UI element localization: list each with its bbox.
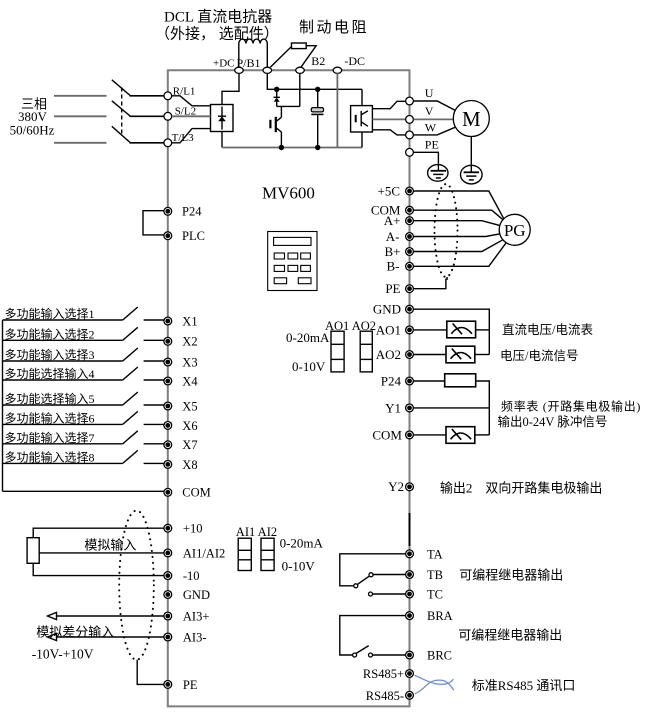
wire Y2 bus segment: [409, 513, 411, 546]
terminal TB: [406, 571, 414, 579]
switch blade X8: [123, 450, 138, 463]
wire AI3-: [57, 636, 165, 638]
wire X6 row: [3, 423, 123, 425]
terminal BRA: [406, 612, 414, 620]
terminal P24 left: [164, 207, 172, 215]
wire B2 drop: [299, 73, 301, 106]
svg-text:多功能输入选择6: 多功能输入选择6: [5, 410, 95, 425]
ground PE symbol: [428, 163, 448, 181]
wire X2 stub: [144, 339, 164, 341]
svg-text:输出0-24V 脉冲信号: 输出0-24V 脉冲信号: [498, 414, 608, 429]
wire S/L2 to rectifier: [172, 115, 211, 117]
motor M: [453, 101, 489, 137]
svg-text:多功能选择输入4: 多功能选择输入4: [5, 366, 95, 381]
jumper block AO2: [360, 331, 372, 372]
svg-text:PE: PE: [183, 678, 198, 692]
wire inverter U: [372, 101, 405, 108]
svg-text:X5: X5: [182, 399, 197, 413]
wire COM to meter: [414, 434, 446, 436]
switch blade X6: [123, 411, 138, 424]
frame bottom border: [167, 705, 411, 707]
wire +5C to PG: [414, 191, 504, 219]
wire X3 row: [3, 360, 123, 362]
terminal TC: [406, 590, 414, 598]
wire X7 stub: [144, 443, 164, 445]
switch blade X2: [123, 327, 138, 340]
relay blade 2: [356, 646, 369, 654]
terminal BRC: [406, 651, 414, 659]
svg-text:多功能选择输入5: 多功能选择输入5: [5, 391, 95, 406]
wire B- to PG: [414, 243, 507, 267]
meter AO1: [447, 321, 476, 338]
wire COM to PG: [414, 210, 503, 220]
wire positive rail: [267, 73, 362, 89]
svg-text:X3: X3: [182, 355, 197, 369]
svg-text:直流电压/电流表: 直流电压/电流表: [502, 323, 593, 337]
wire T/L3 to rectifier: [172, 129, 211, 143]
wire negative rail: [222, 147, 362, 149]
terminal PE left: [164, 681, 172, 689]
node negative rail cap: [315, 145, 320, 150]
terminal AI1/AI2: [164, 549, 172, 557]
jumper block AI1: [238, 538, 251, 570]
shield ellipse PG cable: [435, 184, 458, 277]
svg-text:AI3-: AI3-: [183, 630, 207, 644]
svg-text:PE: PE: [385, 281, 400, 296]
terminal W: [406, 131, 414, 139]
svg-text:AI1 AI2: AI1 AI2: [236, 525, 277, 539]
terminal Y1: [406, 404, 414, 412]
wire AI1 wiper: [39, 552, 164, 554]
wire A- to PG: [414, 234, 500, 237]
rectifier bridge: [211, 105, 234, 132]
wire rectifier minus down: [221, 132, 223, 148]
svg-text:P24: P24: [381, 373, 402, 388]
svg-text:-DC: -DC: [344, 54, 365, 68]
svg-text:B+: B+: [384, 244, 400, 259]
svg-text:50/60Hz: 50/60Hz: [10, 123, 55, 138]
relay contact TC: [369, 592, 373, 596]
terminal R/L1: [164, 92, 172, 100]
terminal B-: [406, 262, 414, 270]
terminal GND right: [406, 305, 414, 313]
node negative rail brake: [279, 145, 284, 150]
wire X8 stub: [144, 462, 164, 464]
wire phase T input: [54, 142, 107, 144]
svg-text:B-: B-: [387, 259, 400, 274]
wire PE to PG shield: [414, 277, 447, 289]
terminal +5C: [406, 187, 414, 195]
svg-text:COM: COM: [182, 486, 210, 500]
svg-text:0-10V: 0-10V: [292, 359, 326, 374]
wire GND to meter bus: [414, 309, 490, 354]
svg-text:PG: PG: [504, 221, 526, 240]
svg-text:制动电阻: 制动电阻: [299, 19, 369, 36]
svg-text:输出2 双向开路集电极输出: 输出2 双向开路集电极输出: [440, 481, 603, 496]
wire AO1 meter to bus: [476, 329, 490, 331]
encoder PG: [499, 214, 530, 245]
wire P24-PLC jumper: [143, 211, 164, 235]
svg-text:AO2: AO2: [376, 347, 401, 362]
wire X1 row: [3, 319, 123, 321]
svg-text:RS485+: RS485+: [363, 667, 404, 681]
wire motor to ground: [470, 137, 472, 165]
ground motor symbol: [461, 164, 483, 184]
meter COM frequency: [446, 427, 475, 444]
switch blade X1: [123, 307, 138, 320]
wire TB: [373, 574, 405, 576]
terminal X1: [164, 317, 172, 325]
transistor inverter module: [351, 106, 373, 132]
jumper block AO1: [331, 331, 344, 372]
frame right bus: [409, 69, 411, 706]
wire P24 to resistor: [414, 380, 445, 382]
wire BRA to relay pivot: [340, 616, 406, 655]
wire X1 stub: [144, 319, 164, 321]
terminal +10: [164, 524, 172, 532]
multifunction input ladder left rail: [2, 320, 4, 491]
terminal X5: [164, 402, 172, 410]
terminal A-: [406, 233, 414, 241]
wire Y1 to bus: [414, 407, 490, 409]
svg-text:模拟差分输入: 模拟差分输入: [36, 625, 114, 640]
svg-text:-10: -10: [183, 569, 200, 583]
meter AO2: [446, 346, 475, 363]
svg-text:+DC: +DC: [213, 58, 234, 70]
wire -10 to pot: [33, 563, 164, 575]
wire COM meter to bus: [475, 434, 490, 436]
terminal COM right: [406, 431, 414, 439]
inductor DCL: [239, 39, 268, 67]
svg-text:DCL 直流电抗器: DCL 直流电抗器: [164, 9, 272, 26]
terminal +DC: [235, 67, 244, 73]
wire COM row: [3, 490, 165, 492]
terminal X2: [164, 337, 172, 345]
svg-text:P24: P24: [182, 205, 202, 219]
keypad operator panel: [268, 232, 317, 291]
svg-text:A-: A-: [386, 229, 400, 244]
wire X6 stub: [144, 423, 164, 425]
svg-text:B2: B2: [311, 54, 325, 68]
terminal TA: [406, 550, 414, 558]
terminal A+: [406, 217, 414, 225]
switch blade X3: [123, 348, 138, 361]
wire inverter V: [372, 118, 405, 120]
shield ellipse analog cable: [119, 511, 154, 660]
svg-text:PLC: PLC: [182, 229, 205, 243]
wire S blade to terminal: [130, 115, 165, 117]
svg-text:X1: X1: [182, 314, 197, 328]
terminal B2: [296, 67, 305, 73]
wire A+ to PG: [414, 221, 500, 226]
wire AO2 meter to bus: [475, 354, 490, 356]
diode brake freewheel: [274, 89, 280, 106]
wire resistor to bus: [476, 381, 490, 435]
svg-text:U: U: [425, 86, 434, 100]
wire V to motor: [414, 118, 454, 120]
svg-text:GND: GND: [183, 588, 210, 602]
svg-text:GND: GND: [373, 302, 401, 317]
terminal B+: [406, 248, 414, 256]
switch blade phase S: [112, 101, 130, 116]
svg-text:PE: PE: [425, 138, 439, 152]
terminal COM left: [164, 488, 172, 496]
wire X2 row: [3, 339, 123, 341]
svg-text:TC: TC: [427, 588, 443, 602]
wire PE to ground: [414, 152, 439, 163]
wire -DC drop: [336, 73, 338, 147]
svg-text:V: V: [425, 104, 434, 118]
svg-text:+10: +10: [183, 522, 203, 536]
svg-text:X6: X6: [182, 419, 197, 433]
svg-text:AO1: AO1: [376, 322, 401, 337]
svg-text:多功能输入选择1: 多功能输入选择1: [5, 306, 95, 321]
wire brake node to B2: [277, 105, 300, 107]
switch blade phase R: [112, 80, 130, 96]
wire W to motor: [414, 127, 455, 135]
node positive rail brake: [274, 87, 279, 92]
svg-text:多功能输入选择7: 多功能输入选择7: [5, 430, 95, 445]
wire X3 stub: [144, 360, 164, 362]
wire AO1 to meter: [414, 329, 447, 331]
svg-text:X7: X7: [182, 438, 197, 452]
arrow AI3+: [48, 612, 57, 619]
arrow AI3-: [48, 633, 57, 640]
wire T blade to terminal: [130, 142, 165, 144]
svg-text:A+: A+: [384, 213, 401, 228]
frame left bus: [167, 69, 169, 706]
wire R blade to terminal: [130, 95, 165, 97]
terminal Y2: [406, 483, 414, 491]
terminal RS485-: [406, 691, 414, 699]
resistor brake: [270, 43, 316, 67]
svg-text:可编程继电器输出: 可编程继电器输出: [459, 567, 563, 582]
wire X4 stub: [144, 379, 164, 381]
potentiometer analog: [27, 538, 39, 564]
svg-text:AI1/AI2: AI1/AI2: [183, 546, 225, 560]
wire X8 row: [3, 462, 123, 464]
relay pivot contact 2: [353, 653, 357, 657]
svg-text:频率表 (开路集电极输出): 频率表 (开路集电极输出): [501, 398, 641, 413]
svg-text:X2: X2: [182, 335, 197, 349]
terminal RS485+: [406, 670, 414, 678]
svg-text:P/B1: P/B1: [237, 56, 261, 70]
svg-text:模拟输入: 模拟输入: [84, 538, 136, 553]
svg-text:COM: COM: [372, 427, 402, 442]
wire +10 to pot: [33, 528, 164, 538]
terminal X6: [164, 422, 172, 430]
relay contact BRC: [369, 653, 373, 657]
terminal P24 right: [406, 377, 414, 385]
svg-text:AI3+: AI3+: [183, 609, 210, 623]
terminal AO2: [406, 351, 414, 359]
svg-text:BRC: BRC: [427, 649, 452, 663]
wire R/L1 to rectifier: [172, 96, 211, 106]
capacitor DC bus: [311, 89, 323, 147]
switch blade X5: [123, 392, 138, 405]
relay pivot contact 1: [354, 584, 358, 588]
svg-text:多功能输入选择8: 多功能输入选择8: [5, 449, 95, 464]
wire X7 row: [3, 443, 123, 445]
terminal -10: [164, 572, 172, 580]
switch gang dashed link: [121, 88, 123, 135]
svg-text:+5C: +5C: [377, 183, 400, 198]
wire AI3+: [57, 615, 165, 617]
node positive rail cap: [315, 87, 320, 92]
label 三相 380V 50/60Hz: [10, 97, 55, 138]
terminal COM encoder: [406, 206, 414, 214]
wire phase R input: [54, 95, 107, 97]
wire X5 stub: [144, 404, 164, 406]
terminal PE encoder: [406, 285, 414, 293]
terminal PLC: [164, 232, 172, 240]
terminal PE motor: [406, 148, 414, 156]
wire X5 row: [3, 404, 123, 406]
switch blade X7: [123, 431, 138, 444]
wire AO2 to meter: [414, 354, 446, 356]
svg-text:标准RS485 通讯口: 标准RS485 通讯口: [472, 678, 576, 693]
twisted pair RS485: [415, 675, 454, 694]
wire BRC: [373, 654, 406, 656]
wire TC: [373, 593, 406, 595]
terminal GND left: [164, 591, 172, 599]
svg-text:MV600: MV600: [262, 184, 315, 203]
wire rectifier plus to +DC: [222, 73, 239, 104]
wire B+ to PG: [414, 240, 503, 252]
terminal P/B1: [263, 67, 272, 73]
terminal AO1: [406, 326, 414, 334]
terminal V: [406, 116, 414, 124]
svg-text:多功能输入选择2: 多功能输入选择2: [5, 326, 95, 341]
terminal X3: [164, 358, 172, 366]
resistor frequency meter load: [445, 374, 476, 387]
svg-text:0-20mA: 0-20mA: [286, 330, 330, 345]
svg-text:可编程继电器输出: 可编程继电器输出: [458, 628, 562, 643]
svg-text:Y2: Y2: [388, 479, 404, 494]
svg-text:0-20mA: 0-20mA: [280, 535, 324, 550]
svg-text:Y1: Y1: [385, 400, 401, 415]
svg-text:多功能输入选择3: 多功能输入选择3: [5, 347, 95, 362]
svg-text:电压/电流信号: 电压/电流信号: [500, 349, 578, 363]
svg-text:W: W: [425, 120, 437, 134]
wire inverter W: [372, 130, 405, 135]
svg-text:BRA: BRA: [427, 609, 453, 623]
terminal AI3-: [164, 633, 172, 641]
terminal -DC: [333, 67, 342, 73]
wire positive rail to inverter: [361, 89, 363, 105]
terminal X4: [164, 377, 172, 385]
wire TA to relay pivot: [340, 554, 406, 586]
svg-text:TA: TA: [427, 547, 443, 561]
svg-text:-10V-+10V: -10V-+10V: [32, 647, 94, 662]
svg-text:X4: X4: [182, 374, 198, 388]
wire negative rail to inverter: [361, 132, 363, 148]
wire phase S input: [54, 115, 107, 117]
svg-text:RS485-: RS485-: [366, 689, 404, 703]
terminal S/L2: [164, 112, 172, 120]
wire shield to PE: [137, 660, 164, 685]
svg-text:X8: X8: [182, 458, 197, 472]
terminal X7: [164, 441, 172, 449]
svg-text:M: M: [462, 107, 481, 131]
switch blade phase T: [112, 126, 130, 142]
frame top border: [168, 69, 410, 71]
switch blade X4: [123, 367, 138, 380]
relay contact TB: [369, 573, 373, 577]
svg-text:0-10V: 0-10V: [282, 559, 316, 574]
transistor brake IGBT: [270, 106, 281, 147]
terminal U: [406, 97, 414, 105]
jumper block AI2: [261, 538, 274, 570]
terminal AI3+: [164, 612, 172, 620]
terminal X8: [164, 461, 172, 469]
terminal T/L3: [164, 139, 172, 147]
relay blade 1: [357, 576, 369, 584]
svg-text:TB: TB: [427, 568, 443, 582]
svg-text:（外接， 选配件）: （外接， 选配件）: [155, 26, 279, 43]
wire X4 row: [3, 379, 123, 381]
wire U to motor: [414, 101, 455, 110]
